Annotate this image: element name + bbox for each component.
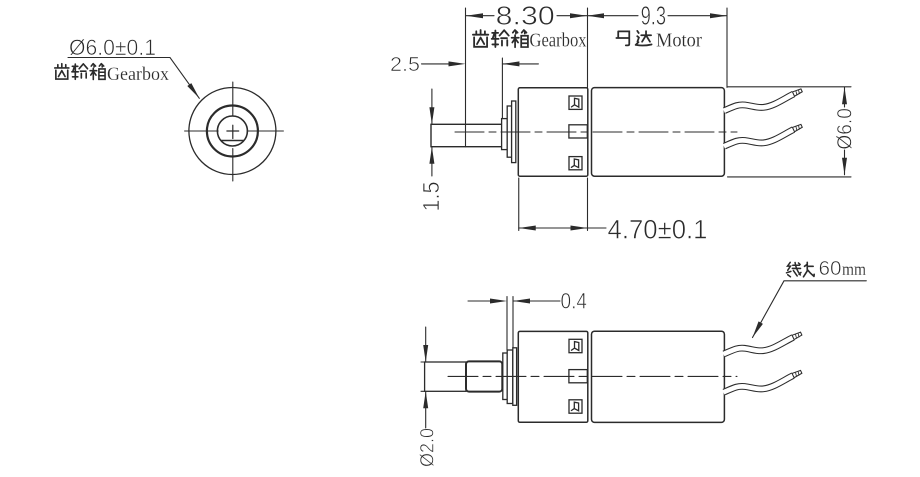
shaft inner circle bbox=[217, 116, 247, 146]
worm section bbox=[466, 361, 502, 391]
label gearbox (chinese+latin) bbox=[55, 64, 170, 85]
arrow at 727 right bbox=[710, 13, 727, 18]
center coupling rect bbox=[569, 125, 587, 138]
horizontal centerline bbox=[185, 130, 284, 132]
top crimp tab bottom view bbox=[569, 339, 582, 352]
motor shaft top view bbox=[431, 124, 502, 146]
dimension 0.4 extension lines bbox=[507, 297, 513, 351]
thin shaft bottom view bbox=[425, 362, 466, 391]
centerline bottom view bbox=[448, 375, 737, 377]
front washer 1 bbox=[507, 106, 511, 157]
washer 1 bottom view bbox=[507, 350, 513, 404]
label wire length 60mm bbox=[786, 258, 866, 280]
washer 2 bottom view bbox=[513, 348, 517, 406]
motor wire lower (bottom view) bbox=[724, 370, 802, 392]
svg-text:9.3: 9.3 bbox=[641, 3, 667, 31]
gearbox outer circle bbox=[189, 88, 276, 175]
front washer 2 bbox=[512, 101, 516, 163]
label motor top view bbox=[616, 31, 702, 52]
gearbox body top view bbox=[518, 88, 588, 176]
leader line for gearbox label bbox=[68, 58, 199, 99]
vertical centerline bbox=[232, 82, 234, 181]
dia 6.0 dimension line bbox=[844, 87, 846, 175]
top crimp tab bbox=[569, 96, 582, 109]
leader arrowhead bbox=[187, 83, 201, 100]
2.5 right arrow bbox=[502, 63, 538, 65]
arrow at 466 left bbox=[466, 13, 483, 18]
svg-text:Motor: Motor bbox=[656, 31, 702, 52]
dimension 1.5 vertical bbox=[431, 89, 433, 176]
motor body bottom view bbox=[592, 331, 725, 422]
centerline top view bbox=[455, 131, 737, 133]
shaft neck shoulder bbox=[502, 119, 508, 150]
svg-text:4.70±0.1: 4.70±0.1 bbox=[608, 215, 708, 245]
arrows at 587 bbox=[570, 13, 587, 18]
shaft flat chord bbox=[221, 140, 244, 142]
shaft extension ticks bbox=[421, 362, 425, 391]
motor wire upper (bottom view) bbox=[724, 332, 802, 354]
extension line at 466 crossing shaft bbox=[465, 124, 467, 146]
extension line at 502.4 bbox=[501, 58, 503, 122]
bottom crimp tab bbox=[569, 157, 582, 170]
dimension line 8.30 / 9.3 bbox=[466, 15, 727, 17]
svg-text:Ø2.0: Ø2.0 bbox=[418, 428, 439, 467]
svg-text:1.5: 1.5 bbox=[418, 182, 444, 212]
collar bbox=[503, 353, 507, 400]
svg-text:Ø6.0: Ø6.0 bbox=[833, 108, 856, 150]
svg-text:Ø6.0±0.1: Ø6.0±0.1 bbox=[69, 35, 156, 60]
0.4 right arrow bbox=[513, 300, 560, 302]
svg-text:mm: mm bbox=[842, 259, 866, 279]
extension line at 466 bbox=[465, 8, 467, 146]
2.5 leader left arrow bbox=[422, 63, 451, 65]
center coupling rect bottom view bbox=[569, 370, 587, 383]
svg-text:Gearbox: Gearbox bbox=[530, 31, 587, 52]
svg-text:60: 60 bbox=[819, 258, 842, 280]
center mark plus bbox=[227, 125, 239, 138]
svg-text:2.5: 2.5 bbox=[390, 54, 420, 76]
svg-text:Gearbox: Gearbox bbox=[107, 64, 169, 85]
label gearbox top view bbox=[473, 30, 587, 51]
extension line at 587 above body bbox=[587, 8, 589, 88]
motor wire upper (top view) bbox=[724, 89, 802, 111]
svg-text:0.4: 0.4 bbox=[561, 289, 588, 314]
dimension dia 2.0 bbox=[425, 327, 427, 428]
extension line at 727 bbox=[726, 8, 728, 87]
wire length label leader bbox=[753, 281, 867, 338]
dia 6.0 extension lines bbox=[728, 87, 852, 177]
0.4 left arrow bbox=[468, 300, 490, 302]
gearbox middle circle bbox=[207, 106, 258, 157]
gearbox body bottom view bbox=[518, 331, 588, 422]
dimension 4.70 line bbox=[519, 227, 606, 229]
svg-text:8.30: 8.30 bbox=[496, 3, 555, 31]
motor wire lower (top view) bbox=[724, 124, 802, 146]
bottom crimp tab bottom view bbox=[569, 400, 582, 413]
motor body top view bbox=[592, 88, 725, 177]
dimension 4.70+-0.1 extension lines bbox=[519, 178, 588, 231]
